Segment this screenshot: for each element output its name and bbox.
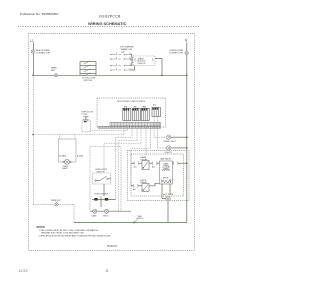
svg-text:CONNECTOR: CONNECTOR [169, 52, 183, 54]
wire control to igniter left [116, 128, 133, 199]
svg-text:BROIL: BROIL [163, 177, 169, 179]
electronic oven control enclosure [97, 98, 166, 127]
wire P1 to oven light 2 [158, 117, 167, 148]
svg-text:HOT WIRE: HOT WIRE [163, 194, 174, 196]
wire L1 to control [32, 75, 34, 204]
connector strip lower [98, 126, 161, 128]
junction spark out [161, 75, 163, 77]
connector P1 [152, 105, 161, 116]
wire broil relay vert from control [130, 163, 132, 186]
convection fan circle [163, 194, 174, 222]
junction L1 control tap [32, 134, 34, 136]
svg-text:GAS VALVE: GAS VALVE [160, 158, 172, 161]
svg-text:A-8: A-8 [133, 188, 136, 191]
svg-text:BAKE: BAKE [92, 214, 98, 217]
bake relay [131, 156, 160, 169]
connector P3 [132, 106, 140, 120]
wire spark module to bus [155, 59, 162, 76]
svg-text:SPARK SW: SPARK SW [121, 48, 133, 51]
inline flame switch [134, 219, 138, 223]
oven lamp box lower-left [59, 135, 84, 171]
svg-text:GSG2PCCB: GSG2PCCB [99, 15, 121, 19]
junction dot left bus [32, 75, 34, 77]
outer dashed border [29, 34, 195, 251]
svg-text:A-3(W): A-3(W) [77, 154, 83, 157]
svg-text:SWITCH: SWITCH [84, 80, 93, 82]
wire nut on bus [51, 67, 58, 77]
broil relay [131, 180, 160, 192]
wire control to relay row1 [131, 128, 151, 163]
oven light 2 [164, 146, 187, 154]
wire nut on N [169, 50, 188, 55]
svg-text:RELAY: RELAY [141, 159, 148, 162]
svg-text:RELAY: RELAY [141, 181, 148, 184]
svg-text:NATIONAL ELECTRICAL CODE REQUI: NATIONAL ELECTRICAL CODE REQUIRED ONLY. [41, 232, 85, 235]
oven door switch [93, 169, 111, 184]
door light switch block [80, 61, 96, 82]
oven igniter assembly [92, 184, 116, 217]
grill plug component [81, 112, 94, 132]
svg-text:* WIRE NUT: * WIRE NUT [50, 200, 61, 202]
main bus wire L1 to N [33, 74, 187, 76]
relay enclosure [128, 151, 190, 201]
wire control to igniter right [118, 128, 137, 211]
svg-text:A-2(BK): A-2(BK) [59, 154, 66, 157]
oven section box [90, 147, 131, 212]
svg-text:12/22: 12/22 [19, 269, 28, 273]
spark module box [133, 56, 155, 66]
oven light 1 [163, 135, 187, 143]
svg-text:CONNECTOR: CONNECTOR [36, 52, 50, 54]
dotted rule under header [18, 26, 200, 28]
svg-text:11: 11 [106, 268, 109, 272]
wire L1 vertical drop [32, 43, 34, 76]
wire control to door switch [104, 128, 141, 172]
svg-text:2. APPLIANCE MUST BE GROUNDED: 2. APPLIANCE MUST BE GROUNDED AND POLARI… [39, 234, 112, 237]
svg-text:OVEN LIGHT: OVEN LIGHT [163, 141, 176, 143]
bottom return wire [74, 222, 187, 224]
gas valve box [160, 158, 173, 185]
wire plug to control [91, 128, 128, 130]
connector P2 [123, 106, 131, 120]
svg-text:LIGHTS: LIGHTS [164, 152, 172, 154]
wires valve bottom [161, 184, 163, 199]
notes block [37, 227, 112, 238]
svg-text:LAMP: LAMP [62, 167, 68, 170]
svg-text:Publication No: 5995599507: Publication No: 5995599507 [20, 12, 59, 16]
wire N vertical [186, 43, 188, 223]
top burner spark switches grid [110, 52, 130, 70]
svg-text:BAKE: BAKE [164, 163, 170, 166]
svg-text:ELECTRONIC OVEN CONTROL: ELECTRONIC OVEN CONTROL [117, 101, 146, 103]
connector P4 [141, 105, 149, 120]
svg-text:NUT: NUT [51, 70, 56, 72]
wires switches to spark module [130, 55, 135, 71]
connector strip upper [110, 122, 161, 126]
svg-text:A-5: A-5 [134, 166, 137, 169]
svg-text:BLACK WIRE: BLACK WIRE [36, 49, 50, 52]
svg-text:L1: L1 [30, 39, 34, 43]
bottom L1 path [33, 200, 74, 222]
wire valve to N [173, 162, 188, 165]
wire control to relay enclosure [145, 128, 147, 160]
svg-text:IGNITOR: IGNITOR [138, 63, 146, 65]
svg-text:WIRING SCHEMATIC: WIRING SCHEMATIC [88, 21, 127, 26]
svg-text:TI6272-P: TI6272-P [107, 245, 118, 248]
svg-text:1. FIELD WIRING MUST BE PER LO: 1. FIELD WIRING MUST BE PER LOCAL CODES … [39, 229, 100, 232]
wire nut connector on L1 [31, 49, 50, 55]
svg-text:A-6: A-6 [152, 166, 155, 169]
svg-text:PLUG: PLUG [82, 114, 88, 116]
svg-text:NOTES:: NOTES: [37, 227, 46, 229]
svg-text:(4): (4) [122, 52, 125, 54]
junction dot bus-N [186, 75, 188, 77]
svg-text:OVEN IGNITER: OVEN IGNITER [94, 194, 109, 196]
wire P1 to oven light 1 [154, 117, 166, 138]
svg-text:BROIL: BROIL [103, 215, 108, 217]
